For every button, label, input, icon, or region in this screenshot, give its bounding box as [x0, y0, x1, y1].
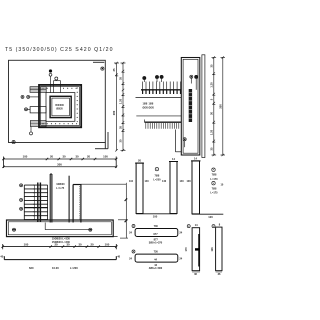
svg-text:35: 35: [210, 147, 214, 150]
section left dim line 1: [114, 62, 119, 152]
svg-text:20: 20: [54, 242, 58, 246]
svg-text:3Ø8+1=370: 3Ø8+1=370: [149, 241, 163, 245]
U-bar callout: [153, 167, 161, 181]
L-bar leg: [191, 161, 201, 214]
plan view outer frame: [9, 60, 109, 148]
svg-text:30: 30: [119, 139, 123, 142]
svg-text:20: 20: [87, 155, 91, 159]
svg-text:1Ø8: 1Ø8: [149, 103, 154, 106]
section right dim labels 1: [210, 64, 214, 150]
svg-text:1Ø8/20: 1Ø8/20: [56, 183, 65, 186]
svg-text:140: 140: [145, 180, 150, 183]
svg-text:20: 20: [90, 242, 94, 246]
L-bar foot: [192, 213, 223, 215]
column outline (plan): [50, 96, 71, 117]
svg-text:15Ø8/20 L=330: 15Ø8/20 L=330: [52, 236, 71, 240]
elevation dim labels: [24, 242, 110, 246]
bottom bar with hooks: [4, 256, 116, 259]
footing outline (plan): [39, 85, 81, 127]
svg-text:40: 40: [0, 255, 3, 259]
svg-text:35: 35: [210, 64, 214, 67]
callout pair left: [21, 95, 39, 98]
elevation column: [73, 185, 81, 223]
svg-text:140: 140: [162, 180, 167, 183]
svg-text:30: 30: [66, 242, 70, 246]
svg-text:30: 30: [62, 155, 66, 159]
stirrup comb upper teeth: [143, 82, 181, 90]
svg-text:280: 280: [112, 110, 116, 115]
stirrup H2: [129, 250, 183, 271]
svg-text:T5 (350/300/50) C25 S420 Q1/20: T5 (350/300/50) C25 S420 Q1/20: [5, 47, 114, 53]
U-bar bottom: [136, 213, 177, 215]
rebar dots bottom band: [43, 123, 78, 124]
footing bar callout top (section): [190, 75, 193, 83]
U-bar top labels: [138, 157, 175, 162]
section left dim line 2: [121, 62, 126, 152]
svg-text:20: 20: [138, 159, 141, 163]
svg-text:L=1.75: L=1.75: [56, 187, 64, 190]
svg-text:7Ø8: 7Ø8: [212, 174, 217, 177]
elevation slab callouts: [12, 223, 92, 232]
svg-text:100: 100: [103, 155, 108, 159]
callout bottom frame: [12, 141, 15, 144]
hatched strip S1 (top-left bars): [30, 87, 46, 93]
elevation height dim bracket: [118, 183, 128, 238]
svg-text:350/300: 350/300: [55, 104, 64, 107]
svg-text:1.20: 1.20: [210, 82, 214, 88]
svg-text:126: 126: [210, 247, 214, 252]
section right dim line 1: [212, 56, 217, 156]
svg-text:100: 100: [23, 155, 28, 159]
V-bar 2: [210, 223, 222, 276]
plan dimension line 2 total: [2, 166, 117, 168]
column lines (section): [136, 97, 182, 122]
V-bar 1: [184, 223, 200, 276]
svg-text:Ø8/20: Ø8/20: [56, 108, 63, 111]
svg-text:30: 30: [75, 155, 79, 159]
svg-text:120: 120: [208, 215, 213, 219]
elevation slab: [7, 220, 118, 237]
svg-text:170: 170: [184, 247, 188, 252]
svg-text:35: 35: [119, 126, 123, 129]
svg-text:40: 40: [117, 255, 120, 259]
svg-text:100: 100: [187, 180, 192, 183]
svg-text:1Ø8: 1Ø8: [143, 103, 148, 106]
elevation extra bar line: [68, 176, 70, 223]
rebar dots right band: [77, 88, 78, 123]
column step outline (section): [175, 130, 181, 152]
L-bar callout block: [210, 168, 218, 194]
U-bar leg 2: [169, 162, 178, 214]
section text cluster: [143, 103, 155, 110]
svg-text:7Ø8: 7Ø8: [155, 174, 160, 177]
callout top 1: [49, 70, 52, 93]
elevation dowel bars bold: [38, 183, 41, 223]
elevation dim line: [2, 244, 118, 249]
svg-text:L=200: L=200: [70, 266, 78, 270]
wall rect (section, right): [202, 55, 205, 158]
svg-text:730: 730: [154, 250, 159, 254]
svg-text:620: 620: [29, 266, 34, 270]
svg-text:100: 100: [24, 242, 29, 246]
section left dim labels 1: [112, 68, 116, 115]
bottom band fine teeth (section): [146, 123, 179, 129]
svg-text:1.20: 1.20: [210, 129, 214, 135]
plan dimension line 1: [2, 157, 117, 169]
svg-text:100: 100: [105, 242, 110, 246]
svg-text:L=175: L=175: [210, 191, 218, 194]
elevation thin wall: [50, 174, 52, 223]
elevation ladder rungs: [24, 185, 47, 220]
svg-text:35: 35: [119, 77, 123, 80]
svg-text:100: 100: [153, 215, 158, 219]
comb callout circles: [143, 75, 198, 90]
svg-text:14: 14: [194, 157, 197, 161]
svg-text:350: 350: [219, 104, 223, 109]
U-bar leg 1: [135, 163, 144, 213]
below-slab text block: [52, 236, 71, 244]
svg-text:Ø/20: Ø/20: [149, 107, 155, 110]
elevation top chord line: [81, 183, 126, 185]
stirrup comb lower bold teeth: [143, 90, 181, 94]
callout top 2 with strip: [53, 77, 60, 93]
svg-text:L=170: L=170: [210, 178, 218, 181]
elevation wall label: [56, 183, 65, 190]
svg-text:35: 35: [112, 68, 116, 71]
L-bar side labels: [180, 180, 224, 186]
svg-text:977: 977: [153, 232, 158, 236]
section right dim line 2: [221, 56, 226, 156]
U-bar side labels: [129, 180, 167, 183]
hatched strip S3 (bottom-left bars): [30, 121, 46, 127]
svg-text:730: 730: [154, 224, 159, 228]
svg-text:20: 20: [50, 155, 54, 159]
svg-text:140: 140: [180, 180, 185, 183]
svg-text:10.00: 10.00: [52, 266, 59, 270]
footing rect (section): [181, 58, 200, 156]
stirrup comb bold line (section): [141, 89, 181, 91]
plan dimension labels 1: [23, 155, 109, 159]
stirrup H1: [129, 224, 183, 245]
svg-text:14: 14: [172, 157, 175, 161]
callout bottom-left of square: [30, 127, 33, 135]
svg-text:7Ø8: 7Ø8: [212, 187, 217, 190]
svg-text:300: 300: [57, 163, 62, 167]
section left dim labels 2: [119, 77, 123, 143]
footing bar callout bottom (section): [183, 138, 186, 148]
rebar dots top band: [43, 88, 77, 89]
svg-text:4Ø8+1=360: 4Ø8+1=360: [149, 266, 163, 270]
column label text: [55, 104, 64, 111]
svg-text:30: 30: [78, 242, 82, 246]
svg-text:110: 110: [129, 180, 134, 183]
elevation ladder callouts: [20, 184, 23, 211]
svg-text:30: 30: [210, 112, 214, 115]
callout strip2: [25, 108, 31, 111]
frame corner callout: [101, 67, 104, 70]
rotated column label (section): [189, 89, 192, 122]
svg-text:L=250: L=250: [153, 178, 161, 181]
outline strip S2 (mid-left bars): [30, 107, 46, 113]
inner ring (plan): [46, 93, 75, 122]
svg-text:1.20: 1.20: [119, 98, 123, 104]
bottom bar labels: [0, 255, 120, 270]
